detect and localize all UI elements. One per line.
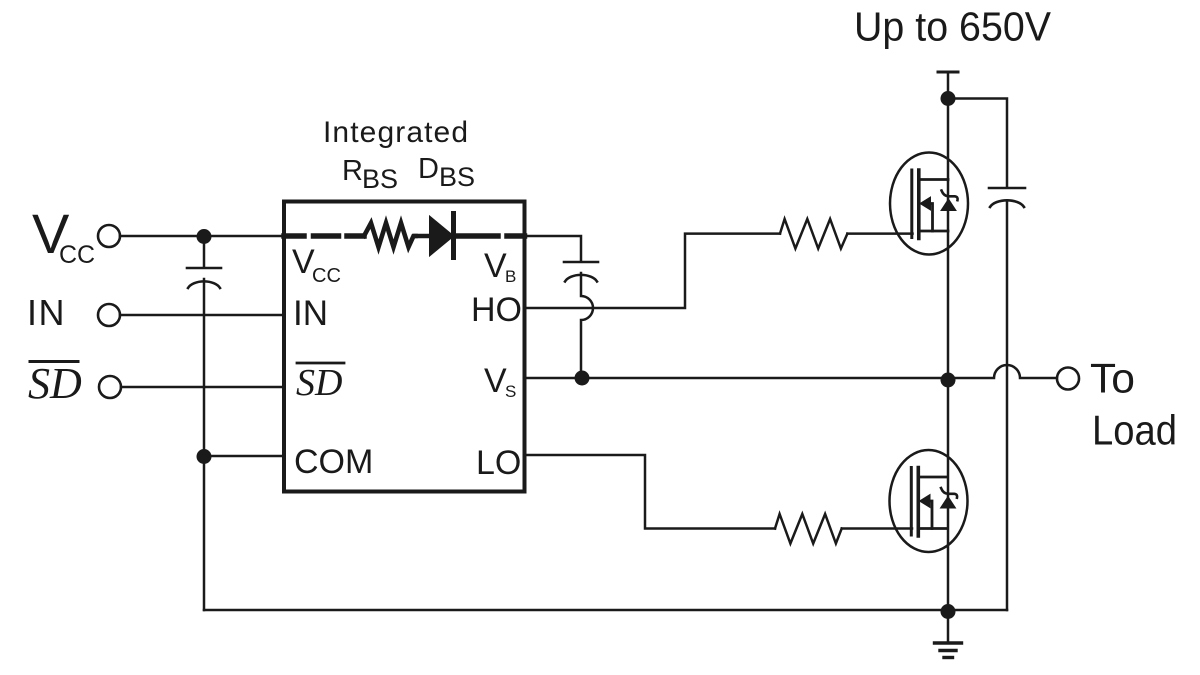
svg-text:Up to 650V: Up to 650V [854,4,1052,50]
op-amp U1 gate driver IC body [284,202,525,492]
wire: SD terminal to IC [121,386,284,389]
wire: RG1 to Q1 gate [847,232,912,235]
supply terminal bar (650V bus) [938,71,958,74]
resistor RBS [364,223,416,247]
capacitor C2 (bootstrap) [564,262,598,282]
node: VCC junction [197,229,212,244]
transistor Q2 (low-side MOSFET with body diode) [890,450,968,552]
capacitor C3 (bus capacitor) [989,188,1025,207]
node: 650V bus junction [941,91,956,106]
wire: bus rail down to Q1 drain [947,99,950,181]
wire: supply stub down to node [947,72,950,99]
resistor RG2 (low-side gate) [775,514,842,544]
terminal VCC [98,225,120,247]
wire: IN terminal to IC [120,314,284,317]
wire: Q1 drain/source rail [947,180,950,379]
terminal To Load [1057,368,1079,390]
svg-text:Integrated: Integrated [323,116,469,149]
svg-text:HO: HO [471,291,522,329]
wire: left rail below C1 down to bottom rail [203,279,206,610]
wire: top-right branch to bus capacitor [948,99,1007,188]
wire: VS pin to load with hop over right branch [525,365,1057,378]
wire: COM node to IC [204,455,284,458]
svg-text:BS: BS [362,164,398,194]
svg-text:COM: COM [294,443,373,481]
svg-text:CC: CC [312,265,341,287]
node: ground junction [941,604,956,619]
svg-text:V: V [484,247,507,285]
node: switch node junction [941,373,956,388]
svg-text:SD: SD [28,359,82,408]
terminal IN [98,304,120,326]
wire: bottom ground rail [204,609,1007,612]
svg-text:R: R [342,155,363,187]
svg-text:To: To [1090,355,1135,402]
svg-text:B: B [505,267,516,286]
svg-text:SD: SD [296,362,342,404]
svg-text:BS: BS [439,162,475,192]
svg-text:D: D [418,153,439,185]
transistor Q1 (high-side MOSFET with body diode) [890,153,968,255]
wire: below C3 down to bottom rail [1006,201,1009,610]
svg-text:IN: IN [27,292,66,333]
wire: VCC node down to C1 [203,236,206,267]
wire: LO pin right, down, to gate resistor [525,455,776,529]
svg-text:CC: CC [59,241,95,269]
svg-text:IN: IN [293,294,328,333]
wire: Q2 drain/source rail [947,378,950,612]
wire: below C2 with hop over HO wire [581,273,593,378]
wire: dashed bootstrap net (right of DBS) [456,233,525,239]
wire: RBS to DBS [416,234,431,239]
svg-text:LO: LO [476,444,521,482]
resistor RG1 (high-side gate) [780,219,847,249]
wire: dashed bootstrap net (left of RBS) [284,233,364,239]
diode DBS [430,217,453,255]
wire: RG2 to Q2 gate [842,527,912,530]
svg-text:S: S [505,382,516,401]
capacitor C1 (VCC decoupling) [187,268,221,288]
wire: HO pin right, up, to gate resistor [525,234,781,308]
svg-text:Load: Load [1092,407,1177,454]
svg-text:V: V [484,362,507,400]
wire: VCC terminal to IC [120,235,284,238]
node: VS-C2 junction [575,371,590,386]
node: COM junction [197,449,212,464]
wire: VB pin to bootstrap cap [525,236,582,261]
terminal SD [99,376,121,398]
ground [947,611,950,642]
